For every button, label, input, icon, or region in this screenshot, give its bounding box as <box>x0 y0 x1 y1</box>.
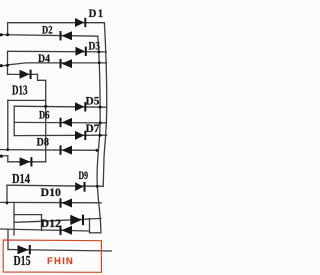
diode D13 <box>20 70 30 79</box>
svg-text:D12: D12 <box>41 216 62 230</box>
wire rail R1 (D1 net, top) <box>8 22 105 24</box>
wire right bus B <box>103 23 107 186</box>
wire rail R3 (D3 net) <box>8 50 106 53</box>
diode D4 (left pointing) <box>62 59 73 68</box>
wire rail R12 (D10 net) <box>0 201 101 203</box>
wire rail R9 (D8 net) <box>0 149 97 152</box>
wire vertical V1 left <box>7 23 9 35</box>
junction dot busA/R8 <box>99 134 102 137</box>
svg-text:D2: D2 <box>42 23 53 37</box>
junction dot left stub y59.5 <box>0 64 3 67</box>
wire rail R15 (D12 net) <box>0 229 90 231</box>
wire U bottom <box>90 232 101 234</box>
diode D11 <box>70 215 82 225</box>
wire vertical V3 left <box>7 65 9 74</box>
wire vertical V10 <box>13 203 15 236</box>
wire vertical V9 <box>6 185 8 202</box>
svg-text:D4: D4 <box>38 51 50 65</box>
wire rail Ra short (y100.4) <box>8 99 46 101</box>
junction dot busA/R7 <box>99 121 102 124</box>
junction dot busA/D9 rail <box>96 185 99 188</box>
svg-text:D9: D9 <box>79 168 89 182</box>
junction dot V6/R9 <box>6 148 9 151</box>
svg-text:D5: D5 <box>86 94 100 108</box>
junction dot left stub y34.5 <box>0 33 3 36</box>
diode D3 <box>76 47 85 56</box>
svg-text:D14: D14 <box>12 171 30 186</box>
wire vertical V7 <box>13 106 15 135</box>
wire rail R7 (D6 net) <box>14 121 107 124</box>
junction dot left stub y155.8 <box>0 155 3 158</box>
diode D5 <box>75 102 84 111</box>
diode D9 <box>75 182 83 191</box>
wire rail R2 (D2 net) <box>0 35 98 37</box>
wire rail R14 (D11 net) <box>14 218 101 222</box>
wire vertical V11 <box>41 215 43 231</box>
junction dot busA/R3 <box>97 50 100 53</box>
wire vertical V8 <box>7 156 9 162</box>
red selection box <box>3 240 101 272</box>
wire staircase from D13 <box>38 74 46 161</box>
wire stub left edge y59.5 <box>0 65 8 67</box>
wire vertical V6 left long <box>7 100 9 149</box>
junction dot V9/R12 <box>6 202 9 205</box>
wire rail R8 (D7 net) <box>14 134 106 136</box>
junction dot staircase/R6 <box>44 105 47 108</box>
wire vertical V12 (x89.5) <box>89 219 91 233</box>
wire rail R11 (D9 net) <box>7 185 103 186</box>
junction dot busA/R4 <box>98 61 101 64</box>
svg-text:FHIN: FHIN <box>47 256 74 267</box>
diode D8 (left pointing) <box>62 146 73 155</box>
svg-text:D13: D13 <box>12 82 28 97</box>
svg-text:D1: D1 <box>89 6 105 20</box>
wire vertical V2 left <box>7 51 9 65</box>
diode D10 (left pointing) <box>62 199 73 208</box>
wire rail R10 (D14 net) <box>8 161 46 163</box>
svg-text:D6: D6 <box>39 108 50 122</box>
svg-text:D10: D10 <box>41 185 62 199</box>
wire right bus A <box>97 36 101 233</box>
diode D7 <box>75 131 84 140</box>
wire rail R4 (D4 net) <box>8 63 107 65</box>
wire stub left edge y155.8 <box>0 155 8 157</box>
diode D1 <box>75 18 84 27</box>
junction dot busA/R9 end <box>96 149 99 152</box>
diode D2 (left pointing) <box>62 31 73 40</box>
svg-text:D3: D3 <box>89 39 101 53</box>
diode D6 (left pointing) <box>62 118 73 127</box>
wire rail R16 (D15 net, bottom) <box>8 250 112 252</box>
wire rail R5 (D13 net) <box>8 73 38 75</box>
diode D14 <box>20 157 31 166</box>
wire rail R6 (D5 net) <box>14 106 107 107</box>
svg-text:D7: D7 <box>86 121 100 135</box>
junction dot busA/R6 <box>99 106 102 109</box>
wire vertical into red box <box>7 230 9 250</box>
diode D12 (left pointing) <box>62 226 73 235</box>
diode D15 <box>18 245 29 254</box>
junction dot V1/R2 <box>6 33 9 36</box>
wire rail R13 (D11 upper) <box>14 214 42 216</box>
svg-text:D8: D8 <box>37 134 50 148</box>
svg-text:D15: D15 <box>14 253 31 268</box>
